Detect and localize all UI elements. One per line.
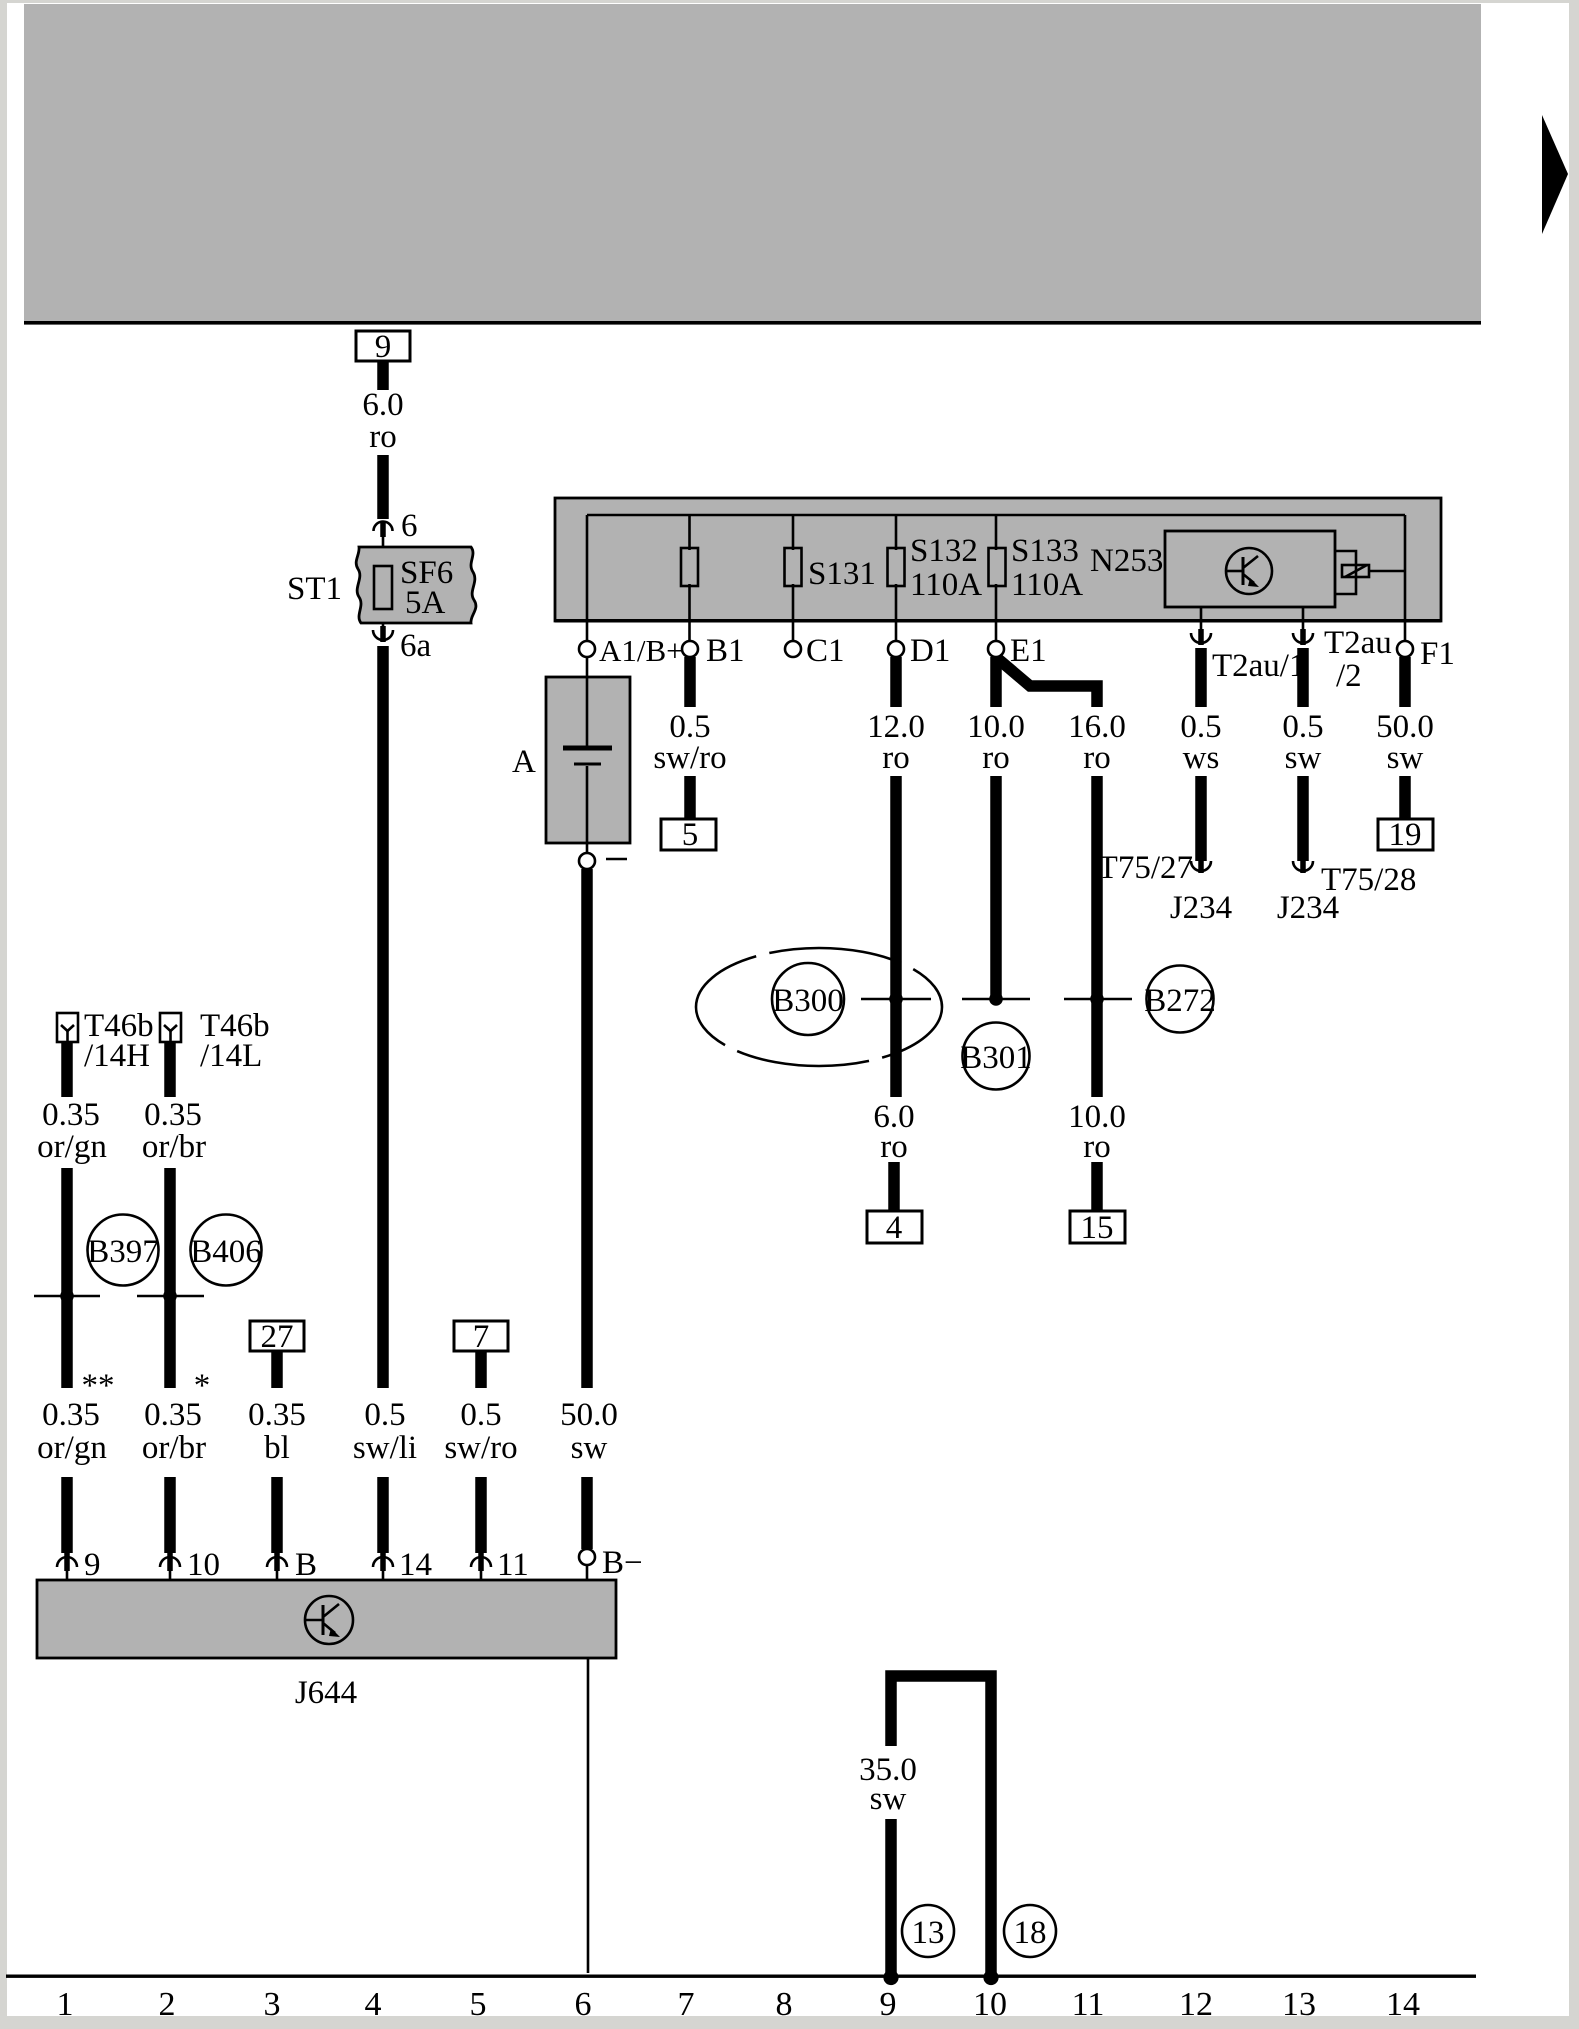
wire drop F1	[1404, 515, 1407, 641]
svg-text:A: A	[512, 744, 536, 780]
wire 50.0 sw from battery to J644 B-	[581, 869, 593, 1388]
J644 pin 11	[471, 1553, 491, 1580]
harness ellipse	[696, 948, 942, 1066]
svg-text:5: 5	[682, 817, 699, 853]
svg-text:7: 7	[678, 1986, 695, 2023]
splice circle B272	[1147, 966, 1214, 1033]
svg-text:N253: N253	[1090, 543, 1163, 579]
svg-text:14: 14	[1386, 1986, 1420, 2023]
wire from E1 down (10.0 branch)	[990, 657, 1002, 707]
fuse panel ST1	[356, 547, 476, 623]
battery plates	[563, 746, 612, 751]
node 27 (box)	[250, 1321, 304, 1351]
svg-text:ro: ro	[1083, 1129, 1111, 1165]
J644 pin 14	[373, 1553, 393, 1580]
svg-text:7: 7	[473, 1319, 490, 1355]
wire 0.5 ws from T2au/1 to J234 T75/27	[1195, 648, 1207, 707]
pin 6a of ST1	[373, 626, 393, 642]
svg-text:19: 19	[1389, 817, 1422, 853]
svg-text:ro: ro	[882, 740, 910, 776]
svg-text:3: 3	[264, 1986, 281, 2023]
svg-text:13: 13	[912, 1915, 945, 1951]
J644 pin 10	[160, 1553, 180, 1580]
splice B272 junction	[1064, 998, 1132, 1001]
svg-text:sw/ro: sw/ro	[444, 1430, 517, 1466]
page-turn arrow	[1542, 115, 1568, 234]
svg-text:sw: sw	[1285, 740, 1322, 776]
svg-text:F1: F1	[1420, 636, 1455, 672]
svg-text:ro: ro	[982, 740, 1010, 776]
header gray panel	[24, 4, 1481, 321]
splice circle B301	[963, 1023, 1030, 1090]
connector plug on N253	[1335, 551, 1356, 594]
pin 6 of ST1	[374, 522, 393, 538]
svg-text:27: 27	[261, 1319, 294, 1355]
wire 0.35 bl	[271, 1351, 283, 1388]
fuse S132 110A	[888, 548, 905, 586]
fuse (unlabeled)	[681, 548, 698, 586]
svg-text:14: 14	[399, 1547, 432, 1583]
fuse SF6 5A	[374, 566, 392, 609]
svg-text:13: 13	[1282, 1986, 1316, 2023]
wire drop B1 through fuse	[688, 515, 691, 550]
pin T2au/1	[1200, 607, 1203, 631]
svg-text:12: 12	[1179, 1986, 1213, 2023]
svg-text:0.35: 0.35	[248, 1397, 306, 1433]
control unit J644	[37, 1580, 616, 1658]
svg-text:6.0: 6.0	[362, 387, 403, 423]
svg-text:B406: B406	[190, 1234, 262, 1270]
svg-text:T2au/1: T2au/1	[1212, 648, 1305, 684]
svg-text:11: 11	[1072, 1986, 1105, 2023]
battery minus terminal	[579, 853, 595, 869]
ground wire from J644 to rail	[587, 1658, 590, 1973]
splice B300 junction	[861, 998, 931, 1001]
wire 0.5 sw/ro	[475, 1351, 487, 1388]
svg-text:15: 15	[1081, 1210, 1114, 1246]
svg-text:sw: sw	[1387, 740, 1424, 776]
pin F1	[1397, 641, 1413, 657]
splice circle B300	[772, 963, 844, 1035]
svg-text:B300: B300	[772, 983, 844, 1019]
svg-text:C1: C1	[806, 633, 845, 669]
svg-text:2: 2	[159, 1986, 176, 2023]
battery ground loop 35.0 sw	[885, 1819, 897, 1973]
svg-text:B1: B1	[706, 633, 745, 669]
wire 6.0 ro from node 9	[377, 360, 389, 390]
svg-text:J644: J644	[295, 1675, 357, 1711]
svg-text:0.35: 0.35	[42, 1397, 100, 1433]
svg-text:6: 6	[401, 508, 418, 544]
node 4 (box)	[867, 1211, 922, 1243]
wire 0.5 sw/li down to J644 pin 14	[377, 646, 389, 1388]
svg-text:D1: D1	[910, 633, 950, 669]
svg-text:sw: sw	[571, 1430, 608, 1466]
svg-text:S132: S132	[910, 533, 978, 569]
electronics symbol in J644	[305, 1596, 353, 1644]
svg-text:E1: E1	[1010, 633, 1047, 669]
splice B301 junction	[962, 998, 1030, 1001]
svg-text:ST1: ST1	[287, 571, 342, 607]
wire 0.35 or/br	[164, 1042, 176, 1097]
svg-text:S131: S131	[808, 556, 876, 592]
svg-text:9: 9	[84, 1547, 101, 1583]
internal bus wire	[587, 514, 1405, 517]
svg-text:ws: ws	[1183, 740, 1220, 776]
svg-text:/2: /2	[1336, 658, 1362, 694]
svg-text:B272: B272	[1144, 983, 1216, 1019]
pin A1/B+	[579, 641, 595, 657]
J644 pin B-	[586, 1565, 589, 1580]
svg-text:B397: B397	[87, 1234, 159, 1270]
svg-text:ro: ro	[369, 419, 397, 455]
svg-text:J234: J234	[1277, 890, 1339, 926]
svg-text:or/gn: or/gn	[37, 1430, 107, 1466]
splice circle B397	[88, 1215, 159, 1286]
wire 0.5 sw/ro from B1 to node 5	[684, 657, 696, 707]
ground terminal 18	[983, 1970, 998, 1985]
svg-text:10: 10	[973, 1986, 1007, 2023]
wire drop C1 through fuse S131	[792, 515, 795, 550]
J644 pin B	[267, 1553, 287, 1580]
svg-text:T75/27: T75/27	[1098, 850, 1193, 886]
fuse S131	[785, 548, 802, 586]
svg-text:0.5: 0.5	[460, 1397, 501, 1433]
wire drop D1 through fuse S132	[895, 515, 898, 550]
wire drop E1 through fuse S133	[995, 515, 998, 550]
svg-text:sw/ro: sw/ro	[653, 740, 726, 776]
svg-text:ro: ro	[1083, 740, 1111, 776]
svg-text:8: 8	[776, 1986, 793, 2023]
wire 50.0 sw from F1 to node 19	[1399, 657, 1411, 707]
wire 0.35 or/gn	[61, 1042, 73, 1097]
svg-text:0.35: 0.35	[144, 1097, 202, 1133]
splice B397 junction	[34, 1295, 100, 1298]
svg-text:110A: 110A	[1011, 567, 1083, 603]
svg-text:bl: bl	[264, 1430, 290, 1466]
wire 12.0 ro from D1	[890, 657, 902, 707]
node 5 (box)	[661, 819, 716, 850]
svg-text:S133: S133	[1011, 533, 1079, 569]
wire 0.5 sw from T2au/2 to J234 T75/28	[1297, 648, 1309, 707]
svg-text:B−: B−	[602, 1545, 643, 1581]
svg-text:0.35: 0.35	[42, 1097, 100, 1133]
svg-text:sw: sw	[870, 1781, 907, 1817]
svg-text:or/br: or/br	[142, 1430, 206, 1466]
svg-text:1: 1	[57, 1986, 74, 2023]
svg-text:or/br: or/br	[142, 1129, 206, 1165]
connector T46b/14H	[57, 1013, 78, 1042]
node 19 (box)	[1378, 819, 1433, 850]
J644 pin 9	[57, 1553, 77, 1580]
svg-text:T2au: T2au	[1324, 625, 1392, 661]
svg-text:5A: 5A	[405, 585, 446, 621]
svg-text:6: 6	[575, 1986, 592, 2023]
pin B1	[682, 641, 698, 657]
svg-text:A1/B+: A1/B+	[599, 633, 684, 668]
pin T2au/2	[1302, 607, 1305, 631]
node 15 (box)	[1070, 1211, 1125, 1243]
svg-text:B301: B301	[960, 1040, 1032, 1076]
svg-text:110A: 110A	[910, 567, 982, 603]
svg-text:9: 9	[375, 329, 392, 365]
big component box (generator/fuse assembly)	[555, 498, 1441, 621]
svg-text:/14L: /14L	[200, 1038, 262, 1074]
svg-text:ro: ro	[880, 1129, 908, 1165]
svg-text:50.0: 50.0	[560, 1397, 618, 1433]
svg-text:11: 11	[497, 1547, 529, 1583]
wire drop A1/B+	[586, 515, 589, 641]
svg-text:J234: J234	[1170, 890, 1232, 926]
pin D1	[888, 641, 904, 657]
pin T75/27 of J234	[1191, 857, 1211, 873]
svg-text:0.35: 0.35	[144, 1397, 202, 1433]
pin E1	[988, 641, 1004, 657]
svg-text:or/gn: or/gn	[37, 1129, 107, 1165]
splice circle B406	[191, 1215, 262, 1286]
svg-text:5: 5	[470, 1986, 487, 2023]
wire through fuse	[382, 535, 385, 629]
generator symbol inside N253	[1226, 548, 1272, 594]
svg-text:10: 10	[187, 1547, 220, 1583]
svg-text:4: 4	[886, 1210, 903, 1246]
node 7 (box)	[454, 1321, 508, 1351]
svg-text:B: B	[295, 1547, 317, 1583]
splice B406 junction	[137, 1295, 204, 1298]
wire through battery	[586, 657, 589, 746]
node 9 (box)	[356, 329, 410, 365]
wire from E1, diagonal elbow to 16.0 branch	[997, 658, 1097, 707]
fuse S133 110A	[989, 548, 1006, 586]
svg-text:0.5: 0.5	[364, 1397, 405, 1433]
wire	[377, 455, 389, 519]
svg-text:4: 4	[365, 1986, 382, 2023]
svg-text:18: 18	[1014, 1915, 1047, 1951]
svg-text:/14H: /14H	[84, 1038, 150, 1074]
svg-text:sw/li: sw/li	[353, 1430, 417, 1466]
svg-text:6a: 6a	[400, 628, 432, 664]
track numbers	[57, 1986, 1421, 2023]
current track rail	[6, 1975, 1476, 1978]
svg-text:9: 9	[880, 1986, 897, 2023]
ground terminal 13	[883, 1970, 898, 1985]
pin T75/28 of J234	[1293, 857, 1313, 873]
connector T46b/14L	[160, 1013, 181, 1042]
pin C1	[785, 641, 801, 657]
battery A	[546, 677, 630, 843]
